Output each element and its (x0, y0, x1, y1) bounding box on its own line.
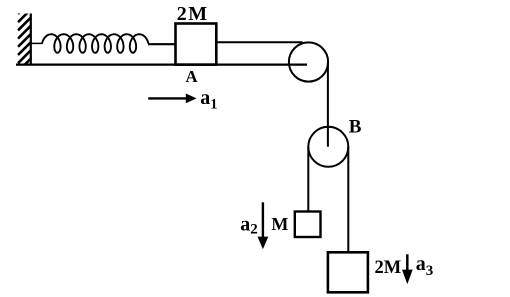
arrow a3 (402, 254, 413, 284)
svg-text:a2: a2 (240, 213, 257, 237)
svg-text:2M: 2M (177, 3, 209, 25)
block M (295, 212, 321, 238)
top pulley (289, 42, 328, 81)
arrow a2 (258, 202, 269, 249)
arrow a1 (148, 94, 196, 104)
spring anchor wire (31, 42, 43, 44)
pulley B (308, 127, 348, 167)
svg-text:2M: 2M (375, 258, 402, 278)
string B to block M (307, 147, 309, 212)
ground line (16, 63, 307, 65)
svg-text:a1: a1 (200, 87, 217, 113)
string B to block 2M (347, 147, 349, 253)
string top pulley to pulley B (327, 62, 329, 147)
string block A to pulley (216, 41, 302, 43)
wall hatching (18, 1, 31, 71)
block A (2M) (176, 24, 217, 65)
svg-text:A: A (185, 67, 198, 86)
block 2M (328, 252, 368, 292)
spring (42, 34, 148, 53)
svg-text:a3: a3 (416, 253, 434, 279)
wire spring to block A (148, 43, 176, 45)
wall face line (30, 14, 32, 65)
svg-text:B: B (349, 116, 362, 137)
svg-text:M: M (271, 214, 288, 234)
